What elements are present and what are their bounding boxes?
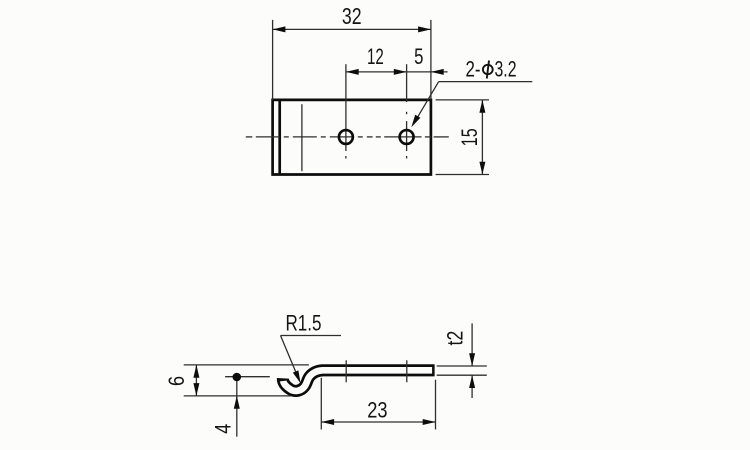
dim 23 extension lines xyxy=(320,378,322,430)
hole 1 xyxy=(339,130,353,144)
R1.5 leader diagonal xyxy=(281,336,297,373)
svg-text:4: 4 xyxy=(211,424,236,434)
leader 2-phi3.2 underline xyxy=(439,81,533,83)
t2 extension lines xyxy=(437,365,487,367)
dim 15 extension lines xyxy=(436,99,489,101)
hook bottom extension line xyxy=(184,395,291,397)
svg-text:t2: t2 xyxy=(442,331,467,346)
svg-text:32: 32 xyxy=(342,3,362,29)
hole 2 xyxy=(400,130,414,144)
hook fold edge line xyxy=(278,100,281,175)
svg-text:12: 12 xyxy=(367,44,384,69)
dim 5 line xyxy=(407,71,448,73)
svg-text:R1.5: R1.5 xyxy=(286,311,322,336)
bend tangent line xyxy=(301,104,303,171)
dim 32 extension lines xyxy=(272,20,274,100)
R1.5 leader underline xyxy=(281,335,342,337)
svg-text:2-: 2- xyxy=(466,57,481,82)
svg-text:23: 23 xyxy=(367,398,387,423)
datum dot xyxy=(233,373,242,382)
svg-text:5: 5 xyxy=(414,44,423,69)
phi symbol xyxy=(483,65,493,74)
hole 1 center line (vertical) xyxy=(345,64,347,158)
dim 15 line xyxy=(481,100,483,175)
t2 dim lines xyxy=(471,323,473,366)
sheet profile outer stroke xyxy=(283,370,435,391)
dim 12 line xyxy=(346,71,407,73)
plate outline (top view rectangle) xyxy=(273,100,431,175)
hole 2 center line (vertical) xyxy=(406,64,408,158)
hole position tick 2 (side view) xyxy=(406,360,408,382)
svg-text:6: 6 xyxy=(164,376,189,386)
svg-text:3.2: 3.2 xyxy=(495,57,517,82)
dim 32 line xyxy=(273,28,431,30)
sheet profile inner white xyxy=(283,370,432,391)
dim 6 line xyxy=(195,365,197,396)
svg-text:15: 15 xyxy=(457,128,482,146)
dim 23 line xyxy=(321,421,435,423)
hole position tick 1 (side view) xyxy=(345,360,347,382)
dim 4 line xyxy=(236,381,238,437)
leader 2-phi3.2 diagonal xyxy=(416,82,439,120)
datum level line xyxy=(225,376,270,378)
horizontal center line xyxy=(246,136,449,138)
top surface extension line xyxy=(184,364,309,366)
